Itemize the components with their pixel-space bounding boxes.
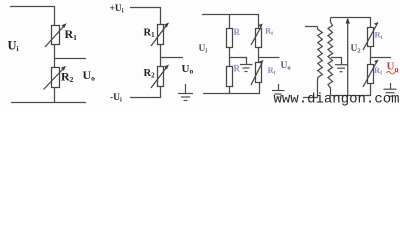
svg-text:R2: R2 [61, 69, 74, 84]
svg-text:R: R [234, 27, 241, 37]
ground (circuit4 output reference) [390, 83, 392, 89]
resistor R (circuit3 lower-left) body [227, 67, 233, 87]
svg-text:Rt: Rt [374, 65, 382, 77]
wire: U2 voltage arrow shaft circuit4 [347, 22, 349, 96]
ground (circuit3 bridge mid) [240, 64, 253, 66]
svg-text:R2: R2 [144, 68, 156, 80]
arrowhead thermistor R1 circuit1 [62, 23, 67, 28]
wire: circuit2 bottom rail to -Ui [130, 87, 161, 98]
wire: circuit3 top rail [202, 15, 259, 29]
svg-text:Uo: Uo [83, 68, 96, 83]
arrowhead thermistor Rt circuit4 upper [374, 22, 378, 26]
wire: circuit2 R1-R2 link [160, 45, 162, 67]
arrowhead thermistor R2 circuit2 [164, 65, 169, 70]
ground (circuit2 output reference) [185, 84, 187, 94]
thermistor R1 (circuit2) body [158, 25, 164, 45]
arrowhead thermistor R2 circuit1 [61, 66, 66, 71]
wire: circuit4 secondary top rail [331, 18, 371, 28]
svg-text:Uo: Uo [182, 63, 194, 76]
wire: circuit3 left mid link [229, 48, 231, 67]
svg-text:Uo: Uo [281, 61, 291, 72]
thermistor Rt (circuit4 upper) body [368, 28, 374, 47]
svg-text:Ui: Ui [8, 38, 19, 53]
svg-text:+Ui: +Ui [110, 4, 124, 15]
thermistor R1 (circuit1) arrow [45, 27, 64, 48]
wire: circuit4 transformer primary top stub [305, 26, 318, 28]
wire: circuit4 output stub [371, 57, 392, 59]
svg-text:R1: R1 [144, 27, 156, 39]
thermistor Rt (circuit3 upper-right) body [256, 29, 262, 48]
ground (circuit3 output reference) [278, 84, 280, 91]
svg-text:Ui: Ui [199, 44, 208, 55]
arrowhead thermistor Rt circuit4 lower [374, 60, 378, 64]
wire: circuit1 top rail [10, 7, 55, 26]
wire: circuit1 mid output rail [55, 58, 87, 60]
wire: circuit4 transformer primary bottom stub [303, 97, 318, 99]
svg-text:R: R [234, 64, 241, 74]
arrowhead thermistor R1 circuit2 [164, 23, 169, 28]
wire: circuit1 bottom rail [11, 102, 86, 104]
wire: circuit1 R1-R2 link [54, 45, 56, 68]
thermistor R1 (circuit1) body [52, 26, 60, 45]
thermistor Rt (circuit4 lower) body [368, 65, 374, 84]
arrowhead thermistor Rt circuit3 lower [259, 60, 263, 64]
svg-text:U2: U2 [351, 44, 361, 55]
thermistor R2 (circuit1) arrow [44, 69, 64, 90]
thermistor Rt (circuit3 upper-right) arrow [251, 27, 261, 45]
svg-text:Rt: Rt [265, 26, 273, 38]
wire: circuit3 bottom rail [203, 83, 260, 94]
wire: circuit4 right mid link [370, 47, 372, 65]
wire: circuit3 output stub [259, 57, 280, 59]
thermistor Rt (circuit4 upper) arrow [363, 26, 376, 50]
svg-text:R1: R1 [65, 27, 78, 42]
arrowhead U2 voltage arrow circuit4 [346, 18, 350, 24]
wire: circuit2 mid output stub [161, 57, 184, 59]
arrowhead thermistor Rt circuit3 upper [258, 24, 262, 28]
svg-text:-Ui: -Ui [110, 93, 122, 104]
red wavy underline under Uo circuit4 [387, 72, 399, 75]
ground (circuit4 center tap) [335, 64, 348, 66]
svg-text:www.diangon.com: www.diangon.com [274, 91, 400, 107]
thermistor R2 (circuit2) body [158, 67, 164, 87]
wire: circuit4 bottom rail [331, 84, 371, 96]
wire: circuit3 right mid link [258, 48, 260, 63]
svg-text:Rt: Rt [375, 30, 383, 42]
transformer T primary winding [318, 27, 323, 98]
wire: circuit3 upper-left resistor top lead [229, 15, 231, 29]
thermistor R2 (circuit2) arrow [151, 68, 166, 88]
thermistor R1 (circuit2) arrow [151, 26, 166, 46]
thermistor Rt (circuit3 lower-right) arrow [251, 63, 262, 85]
transformer T secondary winding [328, 18, 333, 96]
wire: circuit3 lower-left resistor bottom lead [229, 87, 231, 94]
wire: circuit2 top rail from +Ui [130, 8, 161, 25]
svg-text:Rt: Rt [268, 65, 276, 77]
thermistor Rt (circuit3 lower-right) body [256, 63, 262, 83]
wire: circuit1 R2 bottom lead [54, 88, 56, 103]
resistor R (circuit3 upper-left) body [227, 29, 233, 48]
wire: circuit3 ground branch [230, 58, 247, 65]
thermistor R2 (circuit1) body [52, 68, 60, 88]
thermistor Rt (circuit4 lower) arrow [363, 63, 376, 87]
wire: circuit4 center tap to ground [331, 58, 342, 65]
